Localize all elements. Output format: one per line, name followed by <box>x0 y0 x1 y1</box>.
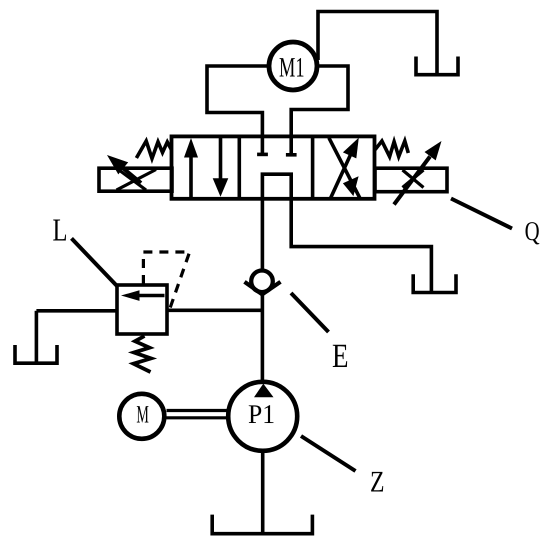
tank bottom <box>212 515 312 534</box>
valve right position plain diagonal <box>329 138 360 199</box>
wire M1 right to valve port B <box>291 66 348 138</box>
svg-text:L: L <box>52 212 67 248</box>
tank top right <box>416 57 458 75</box>
leader line Z <box>301 436 356 471</box>
main pressure line to pump <box>261 295 265 383</box>
tank left <box>15 345 57 363</box>
svg-text:P1: P1 <box>248 399 275 429</box>
valve center blocked port A <box>257 136 268 154</box>
wire valve port T to mid tank <box>291 198 431 293</box>
solenoid left <box>99 155 172 191</box>
valve center blocked port B <box>286 136 297 154</box>
wire valve port P down to check valve <box>261 198 265 270</box>
shaft double line <box>167 411 228 418</box>
wire pump to bottom tank <box>261 451 265 534</box>
relief valve spring <box>134 336 152 372</box>
valve left position down arrow <box>213 136 229 196</box>
valve center connected bottom ports <box>262 174 291 199</box>
svg-text:M1: M1 <box>279 53 305 84</box>
svg-text:Z: Z <box>370 466 385 499</box>
valve right position double arrow <box>331 138 359 199</box>
leader line E <box>291 293 329 332</box>
leader line L <box>72 238 118 286</box>
wire M1 top to tank <box>318 12 437 76</box>
relief valve L body <box>117 285 167 334</box>
tank mid right <box>413 274 456 292</box>
spring right <box>375 141 408 157</box>
relief valve pilot line dashed <box>143 252 189 309</box>
svg-text:E: E <box>332 338 349 375</box>
motor M <box>119 394 164 439</box>
relief valve flow arrow <box>121 290 165 301</box>
spring left <box>136 141 171 159</box>
leader line Q <box>451 199 512 229</box>
check valve E <box>245 271 281 295</box>
svg-text:M: M <box>136 401 149 428</box>
directional valve body <box>172 136 375 198</box>
svg-text:Q: Q <box>525 216 540 246</box>
valve left position up arrow <box>184 138 198 199</box>
flow meter M1 <box>269 42 317 90</box>
wire M1 left to valve port A <box>207 66 268 138</box>
pump P1 <box>228 382 297 451</box>
branch line relief to left tank <box>36 309 117 313</box>
solenoid right <box>375 141 447 205</box>
branch line relief to main <box>167 308 262 312</box>
wire left tank drop <box>35 311 39 363</box>
